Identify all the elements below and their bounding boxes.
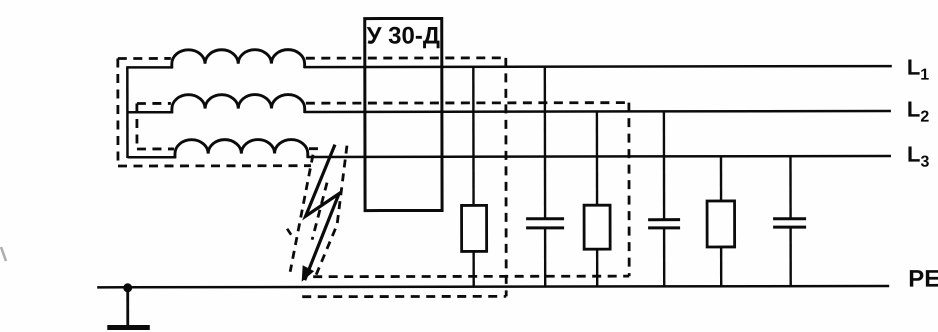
varistor R1 wire: [472, 67, 475, 287]
dashed slant middle of bolt: [312, 183, 327, 240]
dashed slant right of bolt: [316, 146, 347, 275]
wire L1 line after coil: [304, 66, 892, 67]
lightning bolt surge arrow: [301, 145, 339, 282]
varistor R3 body: [707, 201, 735, 247]
ground stem: [126, 287, 129, 326]
wire left bus: [126, 66, 129, 158]
capacitor C3 plates: [773, 219, 806, 227]
inductor L2 coil: [172, 94, 305, 113]
svg-text:У 30-Д: У 30-Д: [367, 22, 440, 49]
dashed vertical right (outer zone): [504, 58, 507, 296]
inductor L1 coil: [172, 50, 305, 69]
dashed shield bottom (inner): [137, 148, 174, 151]
wire L3 line: [127, 156, 175, 159]
dashed shield left (inner): [135, 103, 138, 148]
wire L2 line after coil: [304, 111, 891, 112]
dashed bottom return (inner zone): [313, 275, 629, 278]
varistor R3 wire: [720, 156, 723, 286]
wire L2 line: [127, 111, 172, 114]
capacitor C1 wire top: [544, 67, 547, 219]
dashed shield top (outer): [118, 57, 171, 60]
inductor L3 coil: [175, 139, 308, 158]
svg-text:PE: PE: [908, 266, 938, 293]
lone dash: [287, 229, 291, 235]
dashed shield mid (inner) right part: [309, 147, 324, 150]
dashed shield left (outer): [116, 59, 119, 166]
dashed shield top (outer) right part: [306, 56, 506, 59]
dashed bottom return below PE (outer zone): [302, 295, 506, 298]
dashed vertical right (inner zone): [627, 103, 630, 276]
wire L1 line: [127, 66, 172, 69]
varistor R2 body: [584, 205, 610, 249]
dashed slant left of bolt: [290, 155, 313, 272]
scan artifact left edge: [1, 247, 6, 261]
dashed shield bottom (outer): [118, 164, 311, 167]
dashed shield top (inner): [137, 102, 171, 105]
capacitor C1 wire bottom: [544, 228, 547, 286]
device box U30-D: [365, 18, 442, 210]
capacitor C3 wire bottom: [789, 227, 792, 286]
dashed shield top (inner) right part: [306, 101, 629, 104]
capacitor C1 plates: [526, 219, 564, 228]
ground bar: [107, 325, 149, 330]
capacitor C2 plates: [648, 220, 680, 228]
varistor R1 body: [462, 205, 487, 251]
node PE junction dot: [123, 283, 132, 292]
wire PE line: [97, 286, 889, 287]
varistor R2 wire: [596, 111, 599, 286]
wire L3 line after coil: [307, 156, 891, 157]
capacitor C3 wire top: [789, 156, 792, 219]
capacitor C2 wire bottom: [663, 228, 666, 286]
capacitor C2 wire top: [663, 111, 666, 219]
